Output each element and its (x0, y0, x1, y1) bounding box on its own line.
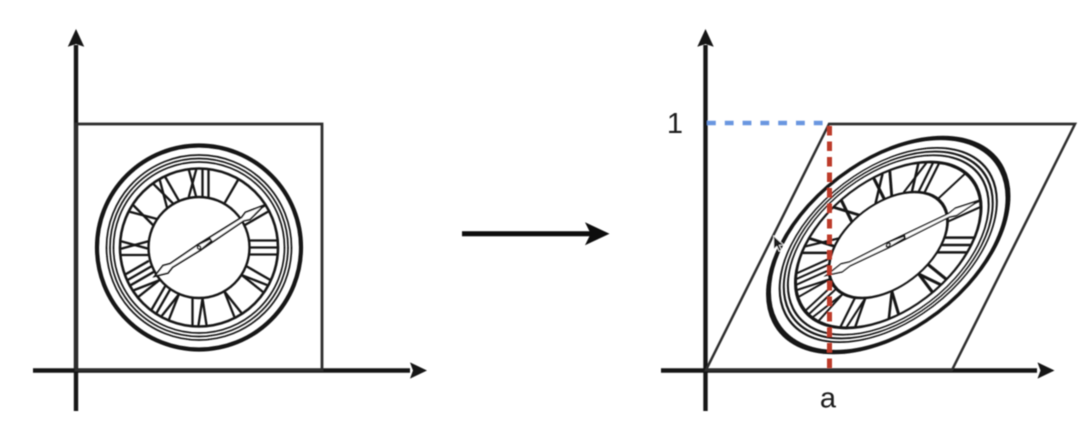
svg-text:a: a (820, 383, 837, 415)
svg-text:1: 1 (667, 108, 683, 140)
